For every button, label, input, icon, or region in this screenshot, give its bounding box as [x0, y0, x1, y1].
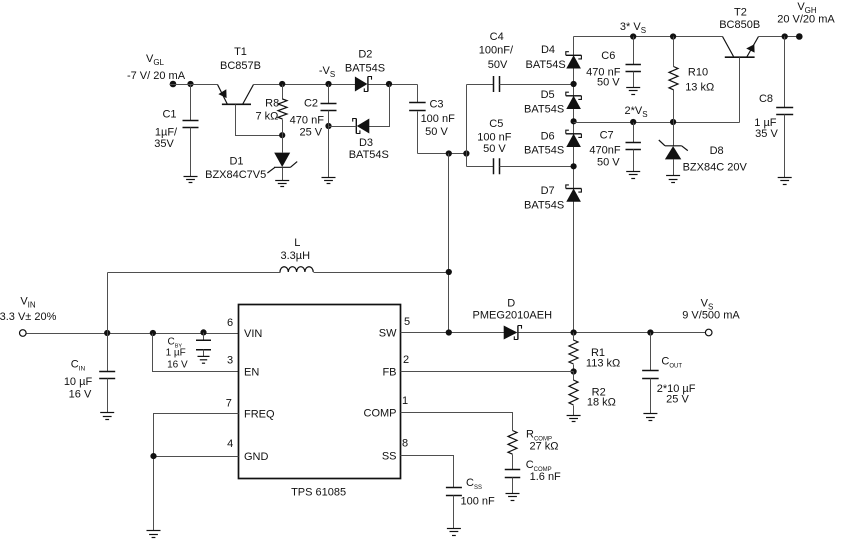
svg-text:7: 7 [226, 398, 232, 410]
svg-text:FREQ: FREQ [244, 409, 275, 421]
svg-text:D7: D7 [541, 185, 555, 197]
svg-text:6: 6 [227, 317, 233, 329]
svg-text:25 V: 25 V [666, 393, 689, 405]
svg-text:100nF/: 100nF/ [479, 45, 514, 57]
svg-text:FB: FB [382, 367, 396, 379]
svg-text:SS: SS [382, 451, 397, 463]
svg-text:D8: D8 [710, 145, 724, 157]
svg-text:EN: EN [244, 366, 259, 378]
svg-text:R10: R10 [688, 67, 708, 79]
svg-text:TPS 61085: TPS 61085 [291, 486, 346, 498]
svg-text:C5: C5 [489, 118, 503, 130]
svg-text:PMEG2010AEH: PMEG2010AEH [473, 309, 553, 321]
svg-text:COMP: COMP [364, 408, 397, 420]
svg-text:C4: C4 [490, 31, 504, 43]
svg-text:C1: C1 [162, 108, 176, 120]
svg-text:35V: 35V [154, 138, 174, 150]
svg-text:1.6 nF: 1.6 nF [530, 471, 561, 483]
svg-text:100 nF: 100 nF [460, 495, 495, 507]
svg-text:113 kΩ: 113 kΩ [586, 357, 620, 369]
svg-text:18 kΩ: 18 kΩ [587, 397, 616, 409]
svg-text:C2: C2 [304, 98, 318, 110]
svg-text:9 V/500 mA: 9 V/500 mA [682, 309, 740, 321]
svg-text:20 V/20 mA: 20 V/20 mA [777, 14, 835, 26]
svg-text:470nF: 470nF [589, 145, 620, 157]
svg-text:L: L [294, 237, 300, 249]
svg-text:BAT54S: BAT54S [524, 144, 564, 156]
svg-text:3.3 V± 20%: 3.3 V± 20% [0, 311, 57, 323]
svg-text:2: 2 [403, 354, 409, 366]
svg-text:3.3µH: 3.3µH [281, 250, 311, 262]
svg-text:BAT54S: BAT54S [345, 63, 385, 75]
svg-text:D: D [507, 297, 515, 309]
svg-text:3: 3 [227, 355, 233, 367]
svg-text:50 V: 50 V [483, 143, 506, 155]
svg-text:D5: D5 [541, 89, 555, 101]
svg-text:100 nF: 100 nF [421, 113, 456, 125]
svg-text:BAT54S: BAT54S [524, 104, 564, 116]
svg-text:D3: D3 [359, 137, 373, 149]
svg-text:VIN: VIN [244, 328, 262, 340]
svg-text:SW: SW [379, 328, 397, 340]
svg-text:BAT54S: BAT54S [524, 200, 564, 212]
svg-text:16 V: 16 V [69, 388, 92, 400]
svg-text:BC857B: BC857B [220, 60, 261, 72]
svg-text:BAT54S: BAT54S [349, 149, 389, 161]
svg-text:C7: C7 [600, 130, 614, 142]
svg-text:-7 V/ 20 mA: -7 V/ 20 mA [127, 70, 186, 82]
svg-text:R8: R8 [265, 98, 279, 110]
svg-text:BZX84C7V5: BZX84C7V5 [205, 169, 266, 181]
svg-text:BC850B: BC850B [719, 19, 760, 31]
svg-text:16 V: 16 V [167, 360, 188, 371]
svg-text:13 kΩ: 13 kΩ [685, 82, 714, 94]
svg-text:D6: D6 [541, 131, 555, 143]
svg-text:GND: GND [244, 451, 269, 463]
svg-text:D1: D1 [229, 156, 243, 168]
svg-text:5: 5 [404, 316, 410, 328]
svg-text:25 V: 25 V [299, 126, 322, 138]
svg-text:C6: C6 [601, 50, 615, 62]
svg-text:470 nF: 470 nF [290, 114, 325, 126]
svg-text:100 nF: 100 nF [477, 132, 512, 144]
svg-text:35 V: 35 V [755, 128, 778, 140]
svg-text:1 µF: 1 µF [166, 347, 186, 358]
svg-text:8: 8 [402, 438, 408, 450]
svg-text:T2: T2 [734, 6, 747, 18]
svg-text:50 V: 50 V [597, 77, 620, 89]
svg-text:C3: C3 [429, 99, 443, 111]
svg-text:BZX84C 20V: BZX84C 20V [683, 161, 748, 173]
svg-text:50 V: 50 V [425, 126, 448, 138]
svg-text:1µF/: 1µF/ [155, 126, 178, 138]
svg-text:10 µF: 10 µF [64, 376, 93, 388]
svg-text:50V: 50V [488, 59, 508, 71]
svg-text:1: 1 [402, 395, 408, 407]
svg-text:T1: T1 [234, 46, 247, 58]
svg-text:D2: D2 [358, 48, 372, 60]
svg-text:BAT54S: BAT54S [526, 59, 566, 71]
svg-text:50 V: 50 V [597, 156, 620, 168]
svg-text:7 kΩ: 7 kΩ [255, 111, 278, 123]
svg-text:C8: C8 [759, 93, 773, 105]
svg-text:4: 4 [227, 438, 233, 450]
svg-text:27 kΩ: 27 kΩ [529, 441, 558, 453]
svg-text:D4: D4 [541, 44, 555, 56]
